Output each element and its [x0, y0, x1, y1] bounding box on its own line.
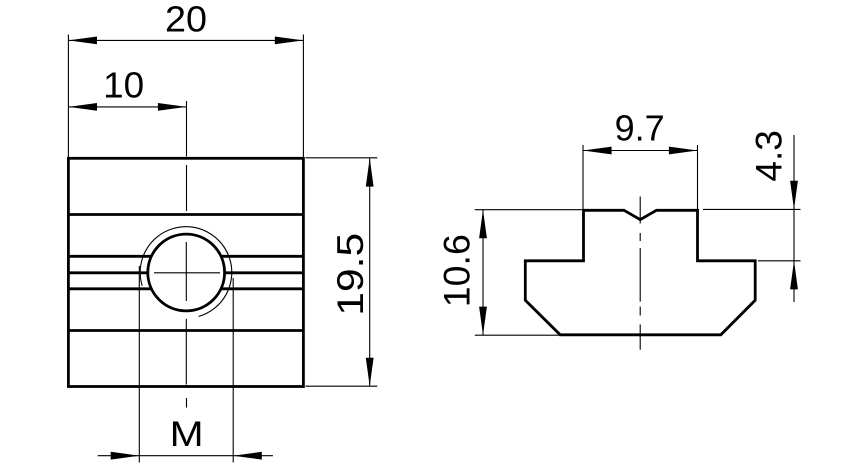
dimension 10.6 extension line top [475, 209, 582, 211]
serration groove line B left segment [68, 271, 147, 274]
profile centerline segment 2 [639, 233, 641, 241]
dimension 4.3 arrow bottom [790, 261, 798, 290]
dimension 20 arrow right [275, 37, 304, 45]
hole horizontal centerline [154, 272, 220, 274]
dimension M arrow left [111, 452, 140, 460]
svg-text:10.6: 10.6 [437, 234, 478, 307]
svg-text:9.7: 9.7 [615, 108, 665, 149]
dimension 19.5 extension line bottom [306, 385, 378, 387]
profile centerline segment 4 [639, 307, 641, 316]
dimension 10.6 arrow bottom [479, 307, 487, 336]
dimension 19.5 extension line top [306, 157, 378, 159]
vertical centerline segment 4 [185, 319, 187, 385]
dimension 10.6 extension line bottom [475, 334, 559, 336]
vertical centerline segment 2 [186, 165, 188, 211]
dimension 10 arrow left [68, 103, 97, 111]
dimension 10 line [68, 106, 186, 108]
dimension 4.3 line [793, 135, 795, 302]
dimension 20 extension line left [67, 35, 69, 159]
dimension 4.3 extension line bottom [758, 260, 801, 262]
dimension 20 extension line right [302, 35, 304, 159]
svg-text:20: 20 [165, 0, 207, 39]
serration groove line lower full [68, 329, 303, 332]
vertical centerline segment 1 [186, 101, 188, 157]
dimension 9.7 arrow left [583, 147, 612, 155]
dimension 9.7 arrow right [669, 147, 698, 155]
serration groove line A right segment [221, 255, 303, 258]
svg-text:M: M [170, 415, 204, 454]
dimension 10.6 arrow top [479, 210, 487, 239]
profile centerline segment 1 [639, 197, 641, 224]
dimension M extension line left [138, 266, 140, 463]
serration groove line C right segment [221, 287, 303, 290]
vertical centerline segment 6 [186, 398, 188, 408]
thread hole core circle [148, 234, 225, 311]
dimension 19.5 arrow bottom [366, 358, 374, 387]
serration groove line upper full [68, 213, 303, 216]
dimension 10 arrow right [158, 103, 187, 111]
dimension 9.7 line [583, 150, 698, 152]
serration groove line C left segment [68, 287, 151, 290]
vertical centerline segment 3 [185, 242, 187, 301]
svg-text:4.3: 4.3 [748, 130, 789, 181]
dimension 19.5 line [369, 158, 371, 386]
dimension 9.7 extension line left [582, 145, 584, 209]
nut body outline [68, 158, 303, 386]
profile centerline segment 3 [639, 248, 641, 302]
dimension 9.7 extension line right [697, 145, 699, 209]
dimension 20 line [68, 39, 303, 41]
serration groove line A left segment [68, 255, 151, 258]
dimension M arrow right [233, 452, 262, 460]
profile centerline segment 5 [639, 324, 641, 349]
thread outer diameter arc [140, 227, 232, 317]
dimension 19.5 arrow top [366, 158, 374, 187]
svg-text:10: 10 [103, 64, 144, 105]
dimension 10.6 line [482, 210, 484, 336]
dimension M extension line right [232, 278, 234, 463]
svg-text:19.5: 19.5 [330, 233, 371, 316]
dimension M line [98, 455, 273, 457]
dimension 20 arrow left [68, 37, 97, 45]
dimension 4.3 arrow top [790, 181, 798, 210]
serration groove line B right segment [225, 271, 304, 274]
dimension 4.3 extension line top [703, 208, 801, 210]
profile outline with V-notch [525, 210, 755, 334]
